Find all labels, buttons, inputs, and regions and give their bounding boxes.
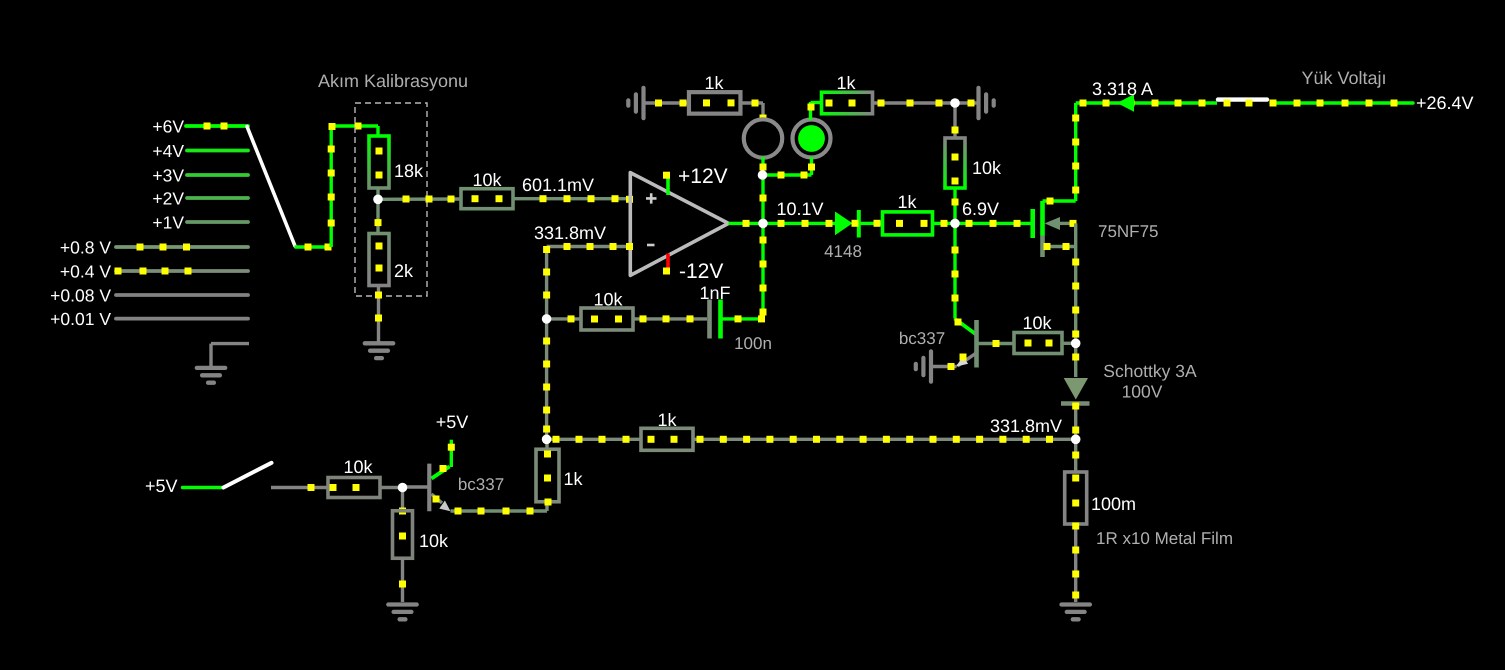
resistor R5 1k	[822, 92, 873, 114]
wire R2 bottom lead	[377, 286, 380, 342]
wire LED top to R5	[811, 101, 822, 104]
svg-text:1k: 1k	[564, 469, 584, 489]
node N7 sense	[1071, 435, 1081, 445]
wire N9 to R12	[547, 438, 641, 441]
resistor R8 10k	[1014, 333, 1062, 354]
svg-text:10k: 10k	[419, 531, 449, 551]
svg-text:1R x10 Metal Film: 1R x10 Metal Film	[1096, 529, 1233, 548]
op-amp U1 V+ pin	[666, 174, 670, 195]
wire vertical riser +6V	[330, 126, 333, 247]
switch SW1 selector lever	[247, 127, 295, 247]
wire N4 to GND4	[955, 101, 977, 104]
svg-text:bc337: bc337	[458, 475, 504, 494]
rail +2V wire	[187, 196, 248, 200]
node N5 6.9V	[950, 219, 960, 229]
svg-text:+4V: +4V	[152, 141, 184, 161]
wire minus vertical	[545, 247, 548, 440]
wire output vertical	[761, 175, 764, 319]
svg-text:+1V: +1V	[152, 213, 184, 233]
svg-text:10k: 10k	[593, 290, 623, 310]
ground GND2	[365, 341, 393, 345]
wire R13 bottom lead	[545, 502, 548, 511]
svg-text:+0.8 V: +0.8 V	[60, 238, 111, 258]
wire LED top lead	[809, 102, 812, 120]
diode D3 Schottky	[1064, 378, 1088, 400]
rail +0.8 V wire	[116, 245, 248, 249]
wire minus input	[547, 245, 631, 248]
wire lamp bottom lead	[761, 157, 764, 175]
svg-text:331.8mV: 331.8mV	[990, 416, 1062, 436]
ground GND5 (Q2 emitter)	[929, 351, 933, 381]
svg-text:2k: 2k	[394, 261, 414, 281]
ground GND6	[1062, 602, 1090, 606]
wire R2 top lead	[376, 199, 379, 233]
op-amp U1 body	[630, 173, 728, 276]
wire M1 source vertical	[1074, 223, 1077, 343]
svg-text:100n: 100n	[734, 334, 772, 353]
svg-text:+26.4V: +26.4V	[1416, 93, 1474, 113]
svg-text:100V: 100V	[1122, 382, 1163, 402]
selection box Akim Kalibrasyonu	[355, 103, 427, 296]
wire R10 to GND6	[1074, 524, 1077, 602]
wire emitter row	[451, 509, 548, 512]
wire R6 bottom lead	[953, 188, 956, 223]
svg-text:10.1V: 10.1V	[776, 199, 823, 219]
svg-text:4148: 4148	[824, 242, 862, 261]
wire D1 to R7	[860, 222, 883, 225]
resistor R14 10k	[328, 478, 380, 498]
wire N10 to R15	[401, 488, 404, 512]
MOSFET M1 75NF75 gate bar	[1030, 209, 1035, 238]
transistor Q2 bc337	[955, 319, 976, 335]
resistor R6 10k	[945, 138, 965, 188]
switch SW2 open	[224, 463, 272, 488]
ground GND4 (right)	[976, 88, 980, 118]
svg-text:10k: 10k	[972, 158, 1002, 178]
ground GND7	[388, 602, 416, 606]
wire Q2 base lead	[977, 342, 1014, 345]
MOSFET M1 source lead	[1043, 245, 1076, 248]
diode D1 4148	[835, 212, 853, 236]
svg-text:+6V: +6V	[152, 117, 184, 137]
resistor R11 10k (feedback)	[581, 308, 633, 330]
wire +5V stub	[183, 486, 224, 489]
wire R11 to C1	[633, 317, 707, 320]
op-amp U1 minus mark	[647, 244, 655, 247]
wire R7 to N5	[932, 222, 955, 225]
wire R1 top lead	[376, 126, 379, 136]
wire C1 to output vertical	[723, 317, 764, 320]
ground GND3 (left of R4)	[641, 88, 645, 118]
svg-text:10k: 10k	[472, 170, 502, 190]
wire GND3 to R4	[645, 101, 689, 104]
wire to ground GND1	[211, 342, 249, 345]
wire R13 top lead	[545, 439, 548, 449]
wire lamp top lead	[761, 103, 764, 120]
svg-text:+0.08 V: +0.08 V	[50, 286, 111, 306]
resistor R2 2k	[369, 234, 389, 286]
svg-text:+3V: +3V	[152, 166, 184, 186]
MOSFET M1 body arrow	[1045, 217, 1061, 230]
resistor R7 1k	[883, 212, 933, 235]
capacitor C1 100n	[707, 300, 712, 339]
svg-text:Yük Voltajı: Yük Voltajı	[1301, 68, 1386, 88]
ground GND1	[197, 366, 225, 370]
svg-text:75NF75: 75NF75	[1098, 222, 1158, 241]
svg-text:10k: 10k	[343, 457, 373, 477]
wire load right segment	[1271, 101, 1413, 104]
rail +6V wire	[186, 124, 248, 128]
wire output to D1	[763, 222, 835, 225]
svg-text:bc337: bc337	[899, 329, 945, 348]
wire Q2 emitter lead	[933, 365, 957, 368]
node N4 top-right	[950, 98, 960, 108]
wire switch pole to vertical	[295, 245, 332, 248]
MOSFET M1 drain lead	[1043, 199, 1076, 202]
wire SW2 to R14	[271, 486, 328, 489]
op-amp U1 plus mark	[646, 193, 657, 203]
switch SW3 closed (load)	[1218, 97, 1267, 101]
svg-text:1k: 1k	[704, 73, 724, 93]
wire N7 to R10	[1074, 439, 1077, 472]
wire LED bottom to N3	[763, 173, 812, 176]
LED D2	[793, 120, 831, 158]
wire load left segment	[1076, 101, 1217, 104]
svg-text:331.8mV: 331.8mV	[534, 223, 606, 243]
MOSFET M1 channel	[1040, 201, 1045, 236]
wire riser top to R1	[331, 124, 378, 127]
resistor R10 100m	[1065, 472, 1087, 524]
node N3 lamp-led	[758, 170, 768, 180]
svg-text:+0.01 V: +0.01 V	[50, 309, 111, 329]
node N2 output	[758, 219, 768, 229]
svg-text:-12V: -12V	[679, 260, 723, 283]
wire R6 top lead	[953, 103, 956, 138]
current arrow 3.318A	[1117, 94, 1134, 111]
node N1 divider	[373, 195, 383, 205]
wire LED bottom lead	[810, 157, 813, 175]
svg-text:18k: 18k	[394, 161, 424, 181]
wire R14 to N10	[380, 486, 403, 489]
svg-text:601.1mV: 601.1mV	[522, 175, 594, 195]
wire N5 to gate	[955, 222, 1031, 225]
resistor R15 10k	[393, 511, 413, 559]
wire R3 to op-amp plus	[513, 197, 631, 200]
svg-text:1k: 1k	[897, 192, 917, 212]
wire ground GND1 drop	[209, 344, 212, 366]
svg-text:Schottky 3A: Schottky 3A	[1103, 361, 1197, 381]
rail +0.4 V wire	[116, 269, 248, 273]
svg-text:+2V: +2V	[152, 189, 184, 209]
svg-text:100m: 100m	[1091, 494, 1136, 514]
wire R8 to N6	[1061, 342, 1076, 345]
wire R5 to N4	[873, 101, 955, 104]
resistor R3 10k	[461, 189, 513, 209]
op-amp U1 V- pin	[666, 254, 670, 272]
svg-text:+5V: +5V	[145, 476, 178, 496]
wire D3 to N7	[1074, 406, 1077, 440]
svg-text:1k: 1k	[836, 73, 856, 93]
resistor R13 1k	[536, 449, 559, 502]
wire Q1 collector vertical	[450, 440, 453, 467]
wire N6 to D3	[1074, 343, 1077, 377]
resistor R4 1k	[689, 92, 741, 114]
node N6 source	[1071, 339, 1081, 349]
svg-text:3.318 A: 3.318 A	[1092, 79, 1153, 99]
wire op-amp output	[729, 222, 764, 225]
svg-text:10k: 10k	[1022, 313, 1052, 333]
svg-text:+12V: +12V	[678, 165, 728, 188]
wire R4 to lamp corner	[741, 101, 763, 104]
wire M1 drain vertical	[1074, 103, 1077, 201]
svg-text:+5V: +5V	[436, 412, 469, 432]
node N9 bottom-left	[542, 435, 552, 445]
node N10 base	[398, 483, 408, 493]
svg-text:+0.4 V: +0.4 V	[60, 262, 111, 282]
wire R1 bottom lead	[376, 188, 379, 199]
node N8 feedback	[542, 314, 552, 324]
svg-text:Akım Kalibrasyonu: Akım Kalibrasyonu	[318, 71, 468, 91]
wire N1 to R3	[378, 197, 461, 201]
rail +0.01 V wire	[116, 317, 248, 321]
rail +3V wire	[187, 173, 248, 177]
svg-text:6.9V: 6.9V	[962, 199, 999, 219]
wire R15 to GND7	[401, 559, 404, 603]
wire Q2 collector vertical	[953, 223, 956, 318]
svg-text:1k: 1k	[657, 410, 677, 430]
wire Q1 base lead	[403, 485, 428, 488]
lamp L1	[744, 119, 782, 157]
transistor Q1 bc337	[427, 464, 431, 512]
wire N8 to R11	[547, 317, 582, 320]
rail +1V wire	[187, 220, 248, 224]
rail +4V wire	[187, 149, 248, 153]
svg-text:1nF: 1nF	[699, 283, 730, 303]
resistor R1 18k	[369, 136, 389, 188]
rail +0.08 V wire	[116, 293, 248, 297]
wire long sense feedback	[693, 438, 1076, 441]
resistor R12 1k (bottom)	[641, 428, 693, 450]
